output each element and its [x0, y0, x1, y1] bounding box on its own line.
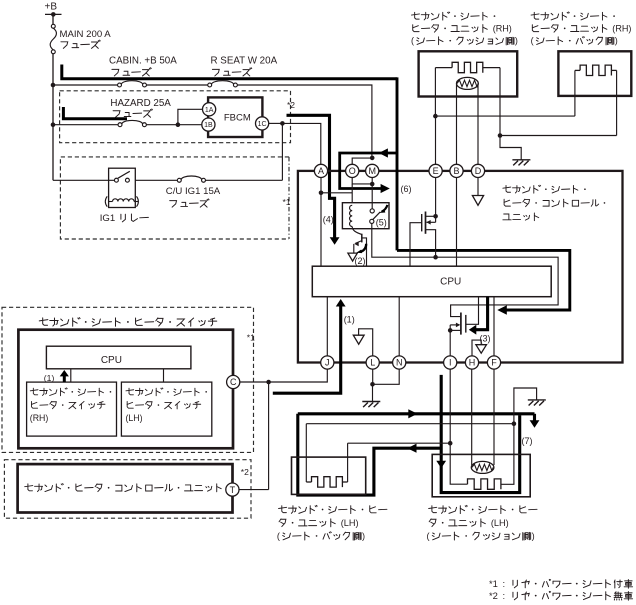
- thermistor RH cushion: [457, 77, 479, 89]
- junction dot I net split: [448, 441, 453, 446]
- junction dot 1C net: [280, 121, 285, 126]
- svg-text:(LH): (LH): [491, 518, 509, 528]
- wire HAZARD fuse to FBCM 1B: [146, 124, 202, 126]
- ground triangle L internal: [353, 335, 364, 344]
- wire B connector to CPU: [456, 178, 458, 267]
- heater element RH cushion: [435, 67, 452, 69]
- thick flow line (7) feed: [441, 375, 520, 493]
- wire main vertical below MAIN fuse: [52, 54, 54, 181]
- junction dot A branch: [319, 191, 324, 196]
- svg-text:MAIN 200 A: MAIN 200 A: [60, 29, 112, 40]
- wire heater return to ground: [500, 136, 521, 160]
- MOSFET U2 body arrow lead: [450, 324, 459, 326]
- chassis ground L N: [362, 401, 380, 403]
- wire relay coil to transistor collector: [352, 227, 361, 235]
- wire C net to J: [269, 369, 328, 382]
- connector O: [346, 164, 359, 177]
- connector E: [429, 164, 442, 177]
- wire E line to connector E: [435, 116, 437, 164]
- actuation arrow (5): [382, 205, 388, 212]
- wire 1C down to C/U IG1 fuse: [281, 123, 283, 180]
- wire C net down to T: [268, 382, 270, 490]
- wire H connector to internal ground: [472, 340, 481, 356]
- ground triangle transistor emitter: [348, 253, 357, 261]
- junction dot CABIN fuse row: [51, 83, 56, 88]
- wire C to junction: [240, 381, 269, 383]
- svg-text:(RH): (RH): [30, 413, 49, 423]
- flow arrowhead left on top segment: [379, 148, 388, 157]
- svg-text:M: M: [368, 166, 376, 176]
- junction dot L N ground: [370, 382, 375, 387]
- svg-text:(: (: [277, 531, 280, 541]
- dashed box heater switch area *1: [2, 307, 254, 452]
- fuse MAIN 200A (fusible link): [51, 24, 55, 28]
- thick flow line around LH back box: [298, 414, 441, 495]
- junction dot E net: [433, 114, 438, 119]
- ground triangle D internal: [472, 196, 483, 206]
- MOSFET U1 source lead to relay net: [426, 230, 436, 258]
- svg-text:D: D: [475, 166, 482, 176]
- svg-text:(RH): (RH): [612, 23, 631, 33]
- wire O to M link upper: [352, 158, 372, 164]
- fuse HAZARD 25A: [118, 123, 122, 127]
- svg-text:IG1: IG1: [100, 213, 115, 224]
- wire FBCM 1C output: [269, 122, 283, 124]
- wire T to C net: [239, 489, 269, 491]
- wire F connector to CPU: [493, 297, 495, 356]
- wire I connector up to U2: [449, 325, 451, 356]
- connector F: [487, 356, 500, 369]
- wire 1C to connector A: [282, 123, 320, 164]
- flow arrow (4) IG1 signal into control unit: [287, 115, 335, 239]
- svg-text::: :: [502, 590, 505, 601]
- thick power bus bar from battery: [62, 65, 397, 79]
- wire +B vertical main feed: [52, 14, 54, 24]
- connector L: [366, 356, 379, 369]
- svg-text:): ): [362, 531, 365, 541]
- junction dot LH return: [512, 421, 517, 426]
- wire L connector to internal ground: [359, 329, 373, 356]
- svg-text:E: E: [433, 166, 439, 176]
- svg-text:B: B: [453, 166, 459, 176]
- relay IG1 box: [109, 168, 136, 207]
- svg-text:FBCM: FBCM: [224, 112, 251, 123]
- wire LH cushion element right lead: [501, 424, 514, 485]
- flow arrowhead right on 413 line: [408, 409, 417, 418]
- wire I down to LH units: [449, 369, 451, 443]
- second seat heater unit RH cushion box: [419, 51, 518, 96]
- connector H: [465, 356, 478, 369]
- wire heater return to RH back heater: [500, 135, 617, 137]
- ground triangle H internal: [476, 345, 487, 354]
- svg-text:): ): [515, 36, 518, 46]
- second heater control unit box: [18, 464, 233, 512]
- wire ground stem: [372, 384, 374, 401]
- wire LH return up to ground: [514, 388, 537, 424]
- svg-text:): ): [532, 531, 535, 541]
- wire CABIN fuse row: [53, 84, 118, 86]
- svg-text:*1: *1: [247, 333, 255, 343]
- thermistor LH cushion: [471, 461, 494, 473]
- MOSFET U1 drain lead: [426, 215, 436, 217]
- svg-text:J: J: [325, 358, 330, 368]
- svg-text:A: A: [318, 166, 324, 176]
- wire heater RH cushion left lead to E: [434, 68, 436, 117]
- switch LH box: [121, 382, 211, 436]
- second seat heater switch box: [18, 330, 233, 449]
- svg-text:L: L: [370, 358, 375, 368]
- chassis ground LH heater return: [528, 399, 546, 401]
- MOSFET U1 channel bar: [425, 212, 427, 234]
- junction dot HAZARD fuse row: [51, 122, 56, 127]
- fuse C/U IG1 15A: [177, 178, 181, 182]
- junction dot U2 on I line: [448, 328, 453, 333]
- wire switch LH to CPU: [163, 369, 165, 382]
- junction dot MOSFET1 source: [433, 255, 438, 260]
- flow arrow (1) switch signal into CPU: [273, 305, 341, 394]
- svg-text:(1): (1): [44, 373, 55, 383]
- svg-text:*2: *2: [489, 590, 498, 601]
- MOSFET U2 gate bar: [465, 315, 467, 333]
- thick flow line around O and M connectors: [340, 153, 397, 189]
- label second seat heater control unit: [503, 185, 586, 193]
- junction dot heater return net: [498, 133, 503, 138]
- chassis ground RH heater return: [512, 159, 530, 161]
- MOSFET U2 channel bar: [460, 313, 462, 335]
- label second seat heater unit RH cushion: [411, 12, 495, 20]
- junction dot 1A branch: [176, 122, 181, 127]
- svg-text:(: (: [531, 36, 534, 46]
- junction dot U1 drain on E line: [433, 214, 438, 219]
- label second seat heater unit RH back: [531, 12, 615, 20]
- second seat heater unit LH cushion box: [432, 454, 530, 496]
- heater element LH back: [306, 481, 311, 483]
- svg-text:*1: *1: [489, 578, 498, 589]
- svg-text:1B: 1B: [204, 122, 213, 129]
- thick bus bar HAZARD feed: [63, 107, 127, 119]
- wire transistor base to CPU: [362, 238, 367, 266]
- svg-text:H: H: [469, 358, 476, 368]
- transistor Q1 base bar: [361, 234, 363, 243]
- svg-text:(: (: [411, 36, 414, 46]
- wire U1 gate to CPU: [410, 223, 422, 267]
- wire A branch to relay coil net: [321, 192, 352, 194]
- svg-text::: :: [502, 578, 505, 589]
- actuation arrow (2): [360, 244, 366, 252]
- MOSFET U2 bottom lead to I line: [450, 329, 461, 331]
- wire D connector to ground triangle: [477, 178, 479, 196]
- second seat heater unit LH back box: [292, 457, 366, 494]
- wire U2 gate to CPU: [466, 297, 479, 325]
- svg-text:(6): (6): [401, 184, 412, 194]
- dashed box FBCM area: [60, 91, 291, 143]
- wire R SEAT W fuse output to M connector: [237, 85, 372, 156]
- wire F to LH thermistor: [493, 369, 495, 465]
- svg-text:O: O: [349, 166, 356, 176]
- connector J: [321, 356, 334, 369]
- wire HAZARD fuse row: [53, 124, 118, 126]
- svg-text:CABIN. +B 50A: CABIN. +B 50A: [109, 56, 177, 67]
- wire heater RH cushion right lead: [499, 68, 501, 136]
- junction dot C net: [266, 380, 271, 385]
- flow arrowhead left on 448 line: [407, 444, 416, 453]
- wire L to chassis ground: [372, 369, 374, 384]
- flow arrow (1) switch to CPU: [63, 375, 66, 383]
- dashed box second heater control unit *2: [4, 460, 251, 519]
- label second seat heater switch title: [39, 318, 216, 327]
- flow arrow (3) CPU to MOSFET2 gate: [475, 297, 488, 330]
- heater element LH cushion: [468, 479, 501, 489]
- wire branch to FBCM 1A: [178, 109, 203, 124]
- connector T: [226, 483, 239, 496]
- svg-text:T: T: [230, 485, 236, 495]
- CPU box control unit: [312, 266, 551, 297]
- svg-text:(RH): (RH): [493, 23, 512, 33]
- svg-text:CPU: CPU: [440, 276, 461, 287]
- connector D: [471, 164, 484, 177]
- MOSFET U1 body arrow lead: [427, 221, 436, 223]
- relay IG1 contact: [114, 178, 118, 182]
- label second seat heater unit LH cushion: [429, 505, 537, 513]
- wire I net to LH cushion element: [450, 443, 467, 484]
- second seat heater unit RH back box: [558, 51, 631, 96]
- FBCM module box: [208, 97, 262, 137]
- svg-text:1A: 1A: [205, 107, 214, 114]
- wire relay contact to C/U IG1 fuse: [135, 179, 177, 181]
- svg-text:(7): (7): [522, 436, 533, 446]
- pin 1A: [203, 103, 216, 116]
- fuse CABIN +B 50A: [118, 83, 122, 87]
- wire LH back element left lead: [305, 424, 307, 482]
- note *1 rear power seat equipped: [489, 578, 633, 589]
- second seat heater control unit box: [298, 171, 623, 363]
- thick power line from bus to MOSFET drains: [396, 77, 399, 250]
- wire E net to RH back heater: [435, 115, 575, 117]
- svg-text:(LH): (LH): [126, 413, 143, 423]
- wire emitter to ground triangle: [353, 244, 355, 253]
- svg-text:C: C: [230, 377, 237, 387]
- wire main feed to IG1 relay contact: [53, 179, 114, 181]
- note *2 rear power seat not equipped: [489, 590, 633, 601]
- flow arrowhead power loop to MOSFET2: [497, 305, 507, 315]
- wire LH back return to ground net: [306, 423, 514, 425]
- svg-text:): ): [615, 36, 618, 46]
- svg-text:*2: *2: [241, 467, 249, 477]
- wire N connector to CPU: [398, 297, 400, 356]
- pin 1C: [256, 117, 269, 130]
- connector B: [450, 164, 463, 177]
- svg-text:F: F: [491, 358, 497, 368]
- svg-text:+B: +B: [45, 2, 58, 13]
- svg-text:(LH): (LH): [341, 518, 359, 528]
- heater element RH back: [575, 69, 580, 71]
- wire H to LH thermistor: [471, 369, 473, 465]
- svg-text:R SEAT W 20A: R SEAT W 20A: [211, 56, 278, 67]
- transistor Q1 emitter with arrow: [355, 241, 362, 244]
- switch CPU box: [46, 346, 191, 369]
- relay internal coil: [350, 205, 353, 226]
- svg-text:(2): (2): [355, 256, 366, 266]
- svg-text:(4): (4): [323, 214, 334, 224]
- svg-text:(1): (1): [344, 315, 355, 325]
- switch RH box: [27, 382, 117, 436]
- connector N: [393, 356, 406, 369]
- wire C/U IG1 fuse output: [205, 179, 282, 181]
- wire M to relay contact: [371, 178, 373, 210]
- wire LH back element right lead to I net: [347, 443, 349, 482]
- wire O to M link lower and to relay coil: [352, 178, 372, 184]
- thick flow line to (7) stub: [298, 412, 535, 415]
- flow arrowhead right (6) on bottom segment: [381, 184, 390, 193]
- wire E connector to U1: [435, 178, 437, 223]
- svg-text:CPU: CPU: [101, 355, 122, 366]
- junction dot M lower: [370, 182, 375, 187]
- svg-text:*1: *1: [283, 197, 291, 207]
- relay internal contact (5): [370, 209, 374, 213]
- connector M: [366, 164, 379, 177]
- junction dot M upper: [370, 156, 375, 161]
- label second heater control unit: [25, 484, 222, 492]
- connector I: [444, 356, 457, 369]
- fuse R SEAT W 20A: [208, 83, 212, 87]
- label second seat heater unit LH back: [279, 505, 387, 513]
- wire N to ground net: [373, 369, 400, 384]
- svg-text:C/U IG1 15A: C/U IG1 15A: [166, 186, 221, 197]
- wire thermistor to B: [456, 83, 458, 164]
- wire thermistor to D: [477, 83, 479, 164]
- flow arrowhead (7) feed down: [436, 461, 446, 469]
- connector A: [314, 164, 327, 177]
- wire A down to CPU: [320, 178, 322, 267]
- wire J connector to CPU: [326, 297, 328, 356]
- relay IG1 coil: [113, 199, 135, 202]
- svg-text:N: N: [396, 358, 403, 368]
- wire relay contact output around CPU to MOSFET2 drain: [372, 223, 558, 316]
- svg-text:*2: *2: [287, 100, 295, 110]
- relay internal box: [342, 203, 389, 229]
- svg-text:HAZARD 25A: HAZARD 25A: [110, 98, 171, 109]
- pin 1B: [202, 118, 215, 131]
- svg-text:I: I: [449, 358, 452, 368]
- MOSFET U1 gate bar: [421, 214, 423, 231]
- svg-text:1C: 1C: [258, 121, 267, 128]
- svg-text:(: (: [427, 531, 430, 541]
- dashed box IG1 relay area: [60, 157, 289, 239]
- svg-text:(5): (5): [376, 218, 387, 228]
- connector C: [227, 375, 240, 388]
- wire switch RH to CPU: [70, 369, 72, 382]
- wire between CABIN and R SEAT W fuses: [146, 84, 207, 86]
